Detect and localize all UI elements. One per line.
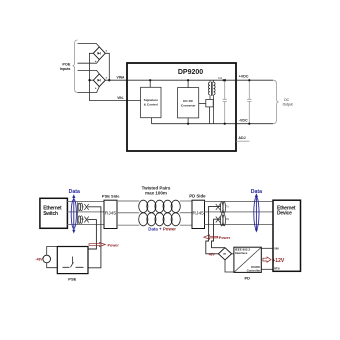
svg-text:VIN: VIN <box>274 247 278 251</box>
svg-text:Output: Output <box>283 102 293 106</box>
svg-text:+VDC: +VDC <box>239 75 249 79</box>
svg-text:Interface: Interface <box>235 251 248 255</box>
svg-text:-48V: -48V <box>36 257 44 261</box>
svg-text:Power: Power <box>108 243 120 247</box>
svg-text:DC: DC <box>284 98 289 102</box>
svg-text:Power: Power <box>219 236 231 240</box>
svg-text:D1: D1 <box>219 76 223 80</box>
svg-text:Converter: Converter <box>181 103 196 107</box>
svg-text:ADJ: ADJ <box>238 136 245 140</box>
svg-text:RTN: RTN <box>274 266 279 270</box>
svg-text:POE: POE <box>62 62 70 66</box>
svg-text:Data + Power: Data + Power <box>148 227 176 232</box>
svg-text:PSE Side: PSE Side <box>102 194 120 199</box>
svg-text:Rx: Rx <box>81 219 85 221</box>
svg-text:Tx: Tx <box>226 206 229 208</box>
svg-text:DP9200: DP9200 <box>178 69 203 76</box>
svg-text:VIN-: VIN- <box>117 96 124 100</box>
svg-text:Switch: Switch <box>43 211 58 217</box>
svg-text:VINA: VINA <box>117 75 125 79</box>
svg-text:Data: Data <box>69 189 80 195</box>
svg-text:RJ45: RJ45 <box>105 210 117 216</box>
svg-text:Device: Device <box>277 211 292 217</box>
svg-text:+12V: +12V <box>272 258 284 264</box>
svg-text:Tx: Tx <box>81 207 84 209</box>
svg-text:max 100m: max 100m <box>145 191 167 196</box>
svg-text:PD Side: PD Side <box>189 194 206 199</box>
svg-text:PD: PD <box>245 276 251 281</box>
svg-text:RJ45: RJ45 <box>192 210 204 216</box>
svg-text:-VDC: -VDC <box>239 119 248 123</box>
svg-text:48V: 48V <box>209 252 216 256</box>
svg-text:Rx: Rx <box>226 219 230 221</box>
svg-text:& Control: & Control <box>144 102 158 106</box>
svg-text:PSE: PSE <box>68 276 76 281</box>
svg-text:Controller: Controller <box>247 268 262 272</box>
svg-text:Inputs: Inputs <box>60 67 71 71</box>
